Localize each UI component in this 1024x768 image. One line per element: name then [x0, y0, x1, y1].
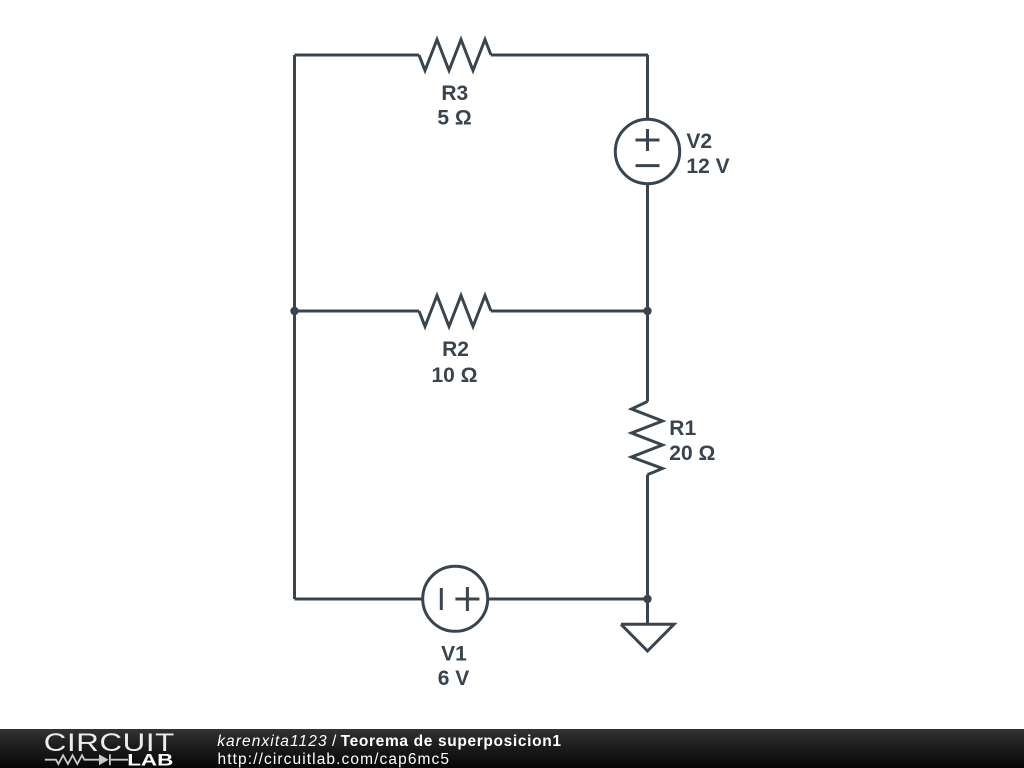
- wire: right top to V2: [646, 55, 649, 120]
- ground: [621, 624, 674, 651]
- resistor R3: [419, 40, 491, 71]
- resistor R1: [632, 402, 663, 475]
- wire: middle left segment: [295, 310, 420, 313]
- voltage source V1: [423, 566, 488, 631]
- wire: top left segment: [295, 54, 420, 57]
- svg-text:LAB: LAB: [127, 751, 173, 768]
- svg-text:10 Ω: 10 Ω: [431, 364, 477, 387]
- logo resistor zigzag: [45, 754, 128, 765]
- node: middle-right junction: [643, 307, 651, 315]
- svg-text:V2: V2: [686, 130, 712, 153]
- svg-text:http://circuitlab.com/cap6mc5: http://circuitlab.com/cap6mc5: [218, 751, 451, 768]
- wire: middle right segment: [491, 310, 648, 313]
- voltage source V2: [615, 119, 679, 183]
- svg-text:20 Ω: 20 Ω: [669, 442, 715, 465]
- footer bar: [0, 729, 1024, 768]
- svg-text:12 V: 12 V: [686, 155, 729, 178]
- wire: V2 to middle node: [646, 184, 649, 311]
- svg-text:R2: R2: [442, 338, 469, 361]
- wire: R1 to bottom node: [646, 475, 649, 599]
- logo wire to LAB: [111, 759, 128, 761]
- resistor R2: [419, 296, 491, 327]
- logo diode cathode bar: [109, 754, 111, 765]
- wire: bottom left segment: [295, 598, 423, 601]
- wire: top right segment: [491, 54, 648, 57]
- svg-text:R3: R3: [441, 82, 468, 105]
- wire: bottom right segment: [488, 598, 648, 601]
- svg-text:V1: V1: [441, 642, 467, 665]
- svg-text:karenxita1123 / Teorema de sup: karenxita1123 / Teorema de superposicion…: [217, 733, 561, 750]
- svg-text:R1: R1: [669, 417, 696, 440]
- node: bottom-right junction: [643, 595, 651, 603]
- svg-text:6 V: 6 V: [438, 667, 470, 690]
- wire: middle node to R1: [646, 311, 649, 402]
- wire: ground stem: [646, 599, 649, 624]
- wire: left vertical: [293, 55, 296, 599]
- logo diode triangle: [99, 754, 109, 765]
- node: middle-left junction: [290, 307, 298, 315]
- svg-text:5 Ω: 5 Ω: [437, 107, 471, 130]
